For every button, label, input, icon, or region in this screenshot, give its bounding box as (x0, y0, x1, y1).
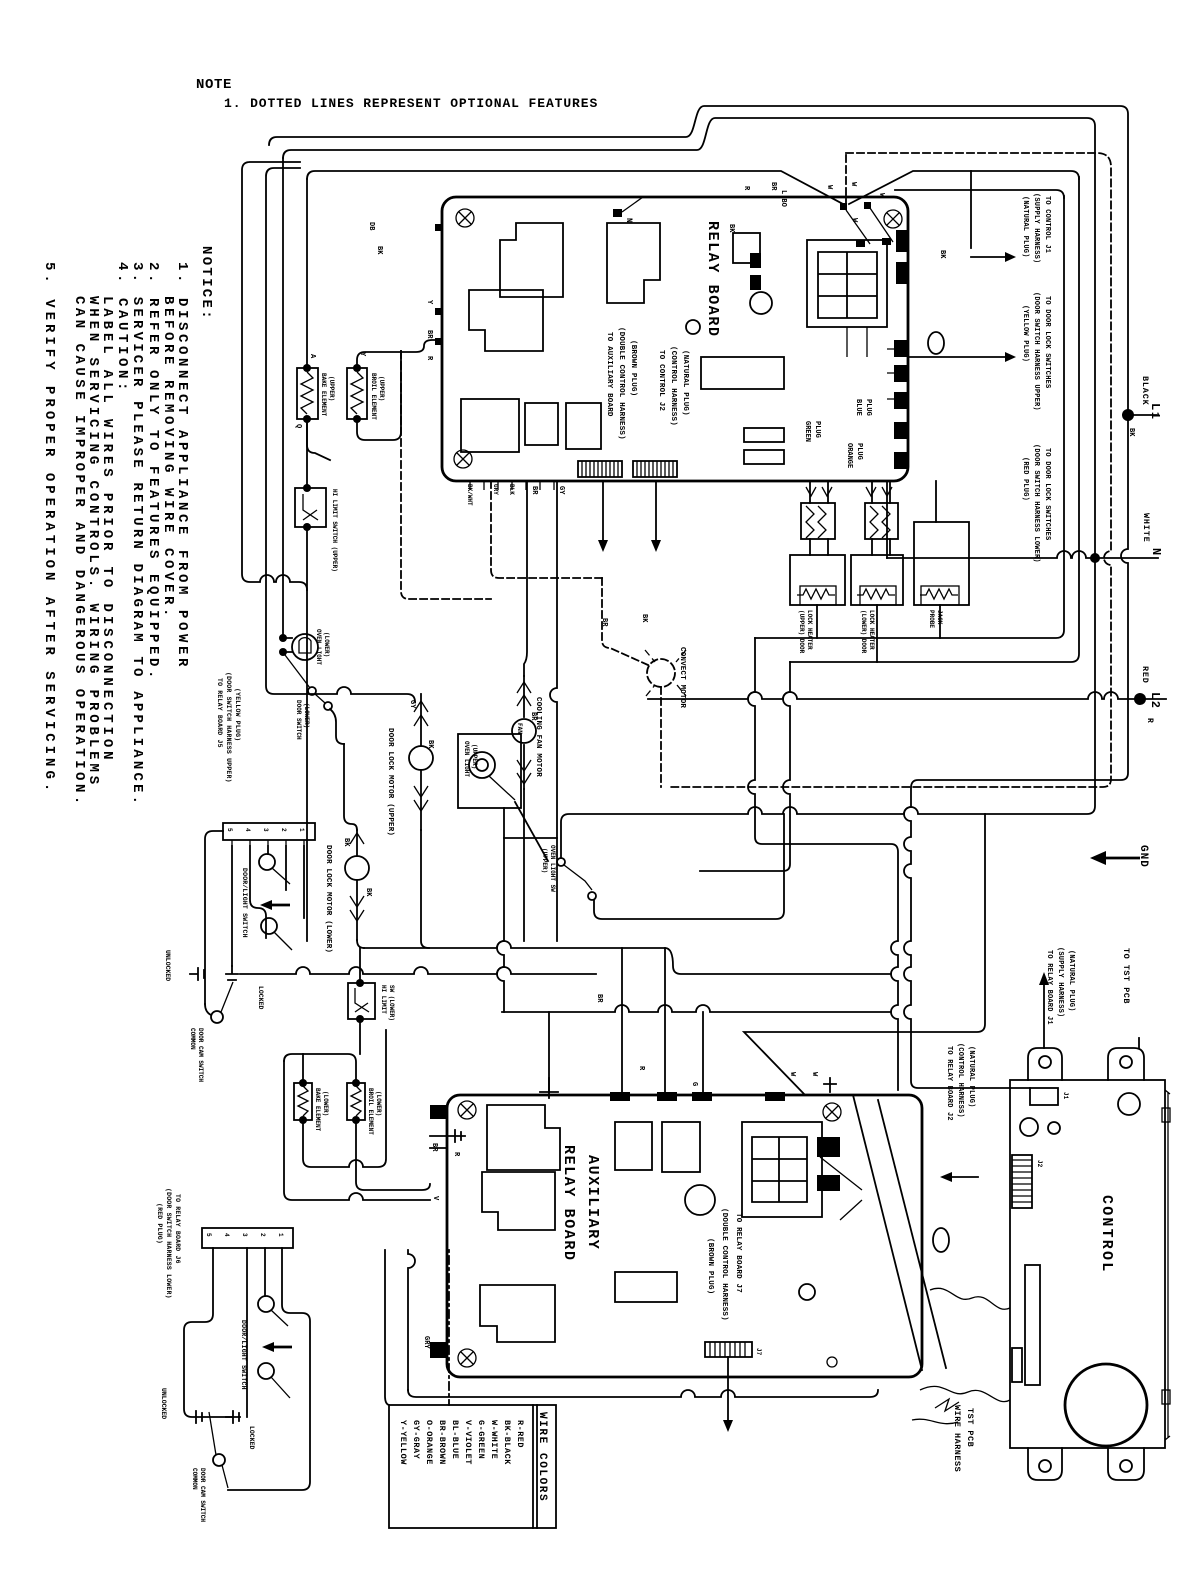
svg-text:UNLOCKED: UNLOCKED (164, 950, 171, 981)
aux relay grid outer (742, 1122, 822, 1217)
aux relay grid cells (752, 1137, 807, 1202)
fan pin blocks (856, 240, 865, 247)
right edge pin block 5 (894, 392, 907, 409)
svg-text:2: 2 (280, 828, 287, 832)
svg-text:R-RED: R-RED (515, 1420, 525, 1448)
dashed wire to convect motor (602, 578, 648, 665)
door/light switch lower circle 1 (258, 1296, 274, 1312)
svg-text:GY-GRAY: GY-GRAY (411, 1420, 421, 1460)
svg-text:(YELLOW PLUG): (YELLOW PLUG) (1021, 305, 1029, 362)
arrow into lower switch (274, 1346, 292, 1349)
svg-text:(LOWER) DOOR: (LOWER) DOOR (860, 610, 867, 654)
wire: feed to aux pins horizontal (744, 814, 985, 1095)
svg-text:3: 3 (241, 1233, 248, 1237)
wire: aux pin risers (549, 948, 703, 1092)
hi limit switch lower box (348, 983, 375, 1019)
control 3d edge (1165, 1090, 1170, 1440)
svg-text:(NATURAL PLUG): (NATURAL PLUG) (1021, 196, 1029, 258)
svg-text:R: R (1145, 718, 1154, 723)
mounting hole bottom-left (454, 450, 472, 468)
svg-text:(RED PLUG): (RED PLUG) (1021, 457, 1029, 501)
svg-text:DOOR/LIGHT SWITCH: DOOR/LIGHT SWITCH (240, 1320, 247, 1390)
svg-text:COOLING FAN MOTOR: COOLING FAN MOTOR (534, 697, 542, 777)
bake element upper terminals (303, 364, 311, 372)
control mounting ear bottom-left (1028, 1448, 1062, 1480)
wire fan feed from board (524, 481, 527, 676)
small arrows above heaters (806, 487, 892, 496)
svg-text:PLUG: PLUG (855, 443, 863, 460)
harness squiggle 3 (912, 1399, 959, 1424)
svg-text:(RED PLUG): (RED PLUG) (156, 1203, 163, 1244)
svg-text:TO RELAY BOARD J5: TO RELAY BOARD J5 (216, 678, 223, 748)
harness squiggle 1 (930, 1288, 1010, 1309)
wire: down arrow from board J3 (655, 481, 657, 540)
svg-text:3: 3 (262, 828, 269, 832)
control big circle (1065, 1364, 1147, 1446)
wire motor upper bottom (421, 830, 429, 948)
right edge pin block 4 (894, 365, 907, 382)
aux top pin blocks (610, 1092, 630, 1101)
svg-text:ORANGE: ORANGE (845, 443, 853, 468)
svg-text:BEFORE REMOVING WIRE COVER.: BEFORE REMOVING WIRE COVER. (160, 296, 176, 620)
svg-text:JACK: JACK (936, 610, 943, 625)
switch blade (564, 865, 592, 890)
hi limit switch blade (303, 494, 318, 520)
svg-text:TO RELAY BOARD J1: TO RELAY BOARD J1 (1045, 950, 1053, 1025)
svg-text:(NATURAL PLUG): (NATURAL PLUG) (681, 350, 689, 416)
right edge pin block 7 (894, 452, 907, 469)
wire: strip J6 pin 1 path (228, 1248, 310, 1490)
relay K2 polygon (469, 290, 543, 351)
strip J5 pin ticks (232, 840, 304, 846)
svg-text:COMMON: COMMON (191, 1468, 198, 1490)
svg-text:COMMON: COMMON (189, 1028, 196, 1050)
svg-text:CAN CAUSE IMPROPER AND DANGERO: CAN CAUSE IMPROPER AND DANGEROUS OPERATI… (71, 296, 87, 808)
wire: left rail 2 (266, 168, 415, 702)
aux right edge pin blocks (817, 1137, 840, 1157)
t-bar terminal lower 2 (226, 1411, 239, 1423)
arrow into switch 2 (272, 904, 290, 907)
svg-text:(BROWN PLUG): (BROWN PLUG) (706, 1238, 714, 1294)
wire: long horizontal 974 (240, 967, 596, 974)
wire: dashed stub to junction (845, 155, 847, 204)
svg-text:4. CAUTION:: 4. CAUTION: (114, 262, 130, 394)
control mounting ear top-right (1108, 1048, 1144, 1080)
wire: frame line into board top junction (307, 171, 843, 204)
svg-text:(SUPPLY HARNESS): (SUPPLY HARNESS) (1056, 947, 1064, 1017)
control circle small (1048, 1122, 1060, 1134)
svg-text:LOCK HEATER: LOCK HEATER (868, 610, 875, 650)
svg-text:DOOR SWITCH: DOOR SWITCH (295, 700, 302, 740)
svg-text:GRY: GRY (422, 1336, 430, 1349)
svg-text:BK: BK (727, 224, 735, 233)
aux small circle (799, 1284, 815, 1300)
convect motor dashed circle (647, 659, 675, 687)
right edge pin block 6 (894, 422, 907, 439)
connector J3 strip hatched (633, 461, 677, 477)
mounting hole top-left (456, 209, 474, 227)
small circle component (686, 320, 700, 334)
svg-text:1. DOTTED LINES REPRESENT OPTI: 1. DOTTED LINES REPRESENT OPTIONAL FEATU… (224, 96, 598, 111)
oven light upper lamp (469, 752, 495, 778)
dash-dot riser to legend (448, 1250, 450, 1405)
svg-text:TO CONTROL J1: TO CONTROL J1 (1043, 196, 1051, 253)
wire: left rail 1 (242, 162, 307, 590)
broil element upper box (347, 368, 367, 419)
left edge stub 1 (435, 224, 443, 231)
control tall connector (1025, 1265, 1040, 1385)
aux top t-bar pin (540, 1078, 558, 1098)
relay board outline (442, 197, 908, 481)
svg-text:3. SERVICER PLEASE RETURN DIAG: 3. SERVICER PLEASE RETURN DIAGRAM TO APP… (129, 262, 145, 807)
aux small hole bottom-right (827, 1357, 837, 1367)
svg-text:HI LIMIT SWITCH (UPPER): HI LIMIT SWITCH (UPPER) (331, 489, 338, 572)
svg-text:DOOR LOCK MOTOR (UPPER): DOOR LOCK MOTOR (UPPER) (386, 728, 394, 836)
svg-text:N: N (1149, 548, 1163, 557)
svg-text:J2: J2 (1036, 1160, 1043, 1168)
cam switch lower circle (213, 1454, 225, 1466)
svg-text:O-ORANGE: O-ORANGE (424, 1420, 434, 1465)
svg-text:1: 1 (277, 1233, 284, 1237)
svg-text:4: 4 (223, 1233, 230, 1237)
svg-text:CONTROL: CONTROL (1098, 1195, 1115, 1273)
svg-text:BROIL ELEMENT: BROIL ELEMENT (370, 373, 377, 420)
svg-text:BK/WHT: BK/WHT (466, 484, 473, 506)
aux relay polygon 2 (482, 1172, 555, 1230)
door lock motor upper arrows (420, 694, 422, 746)
svg-text:BAKE ELEMENT: BAKE ELEMENT (320, 373, 327, 417)
wire: rail to door-lock heater row (755, 196, 1064, 638)
arrowhead (1005, 352, 1016, 362)
t-bar terminal 2 (190, 968, 204, 980)
svg-text:OVEN LIGHT SW: OVEN LIGHT SW (549, 845, 556, 892)
t-bar terminal 1 (226, 966, 238, 980)
svg-text:TO TST PCB: TO TST PCB (1121, 948, 1131, 1004)
convect motor dashed arrows (645, 650, 686, 696)
cooling fan motor (512, 719, 536, 743)
svg-text:V-VIOLET: V-VIOLET (463, 1420, 473, 1465)
wire: dashed optional line top (668, 153, 1111, 787)
svg-text:5. VERIFY PROPER OPERATION AFT: 5. VERIFY PROPER OPERATION AFTER SERVICI… (41, 262, 57, 795)
wire: door switch to motor feed (330, 709, 344, 744)
oven light upper box (458, 734, 521, 808)
tilted side panel line 1 (853, 1095, 922, 1370)
svg-text:BK: BK (342, 838, 350, 847)
aux relay polygon 1 (487, 1105, 560, 1170)
wires from strip J5 down (232, 846, 304, 966)
grid to pin wires (847, 327, 894, 399)
door lock motor lower arrows (356, 830, 358, 856)
cam switch terminals (205, 1004, 211, 1015)
wire into switch from left rail (504, 837, 557, 839)
svg-text:TO DOOR LOCK SWITCHES: TO DOOR LOCK SWITCHES (1043, 296, 1051, 388)
bake element lower box (294, 1083, 312, 1120)
svg-text:GY: GY (408, 700, 416, 709)
probe jack box (914, 522, 969, 605)
svg-text:2: 2 (259, 1233, 266, 1237)
ic rect (701, 357, 784, 389)
wire: oven light switch riser (594, 814, 784, 919)
oven light lower lamp (292, 634, 318, 660)
wire: vertical rail mid 2 (700, 662, 790, 871)
tilted side panel line 2 (878, 1100, 946, 1368)
svg-text:BL-BLUE: BL-BLUE (450, 1420, 460, 1459)
t-bone terminals into aux left (430, 1130, 465, 1142)
svg-text:NOTICE:: NOTICE: (198, 246, 214, 321)
wire: junction to right continuing frame (849, 171, 1079, 204)
cam switch lower tail (222, 1465, 228, 1488)
svg-text:DOOR CAM SWITCH: DOOR CAM SWITCH (199, 1468, 206, 1522)
aux circle (685, 1185, 715, 1215)
svg-text:(UPPER) DOOR: (UPPER) DOOR (798, 610, 805, 654)
aux rect 2 (662, 1122, 700, 1172)
svg-text:(CONTROL HARNESS): (CONTROL HARNESS) (669, 346, 677, 426)
svg-text:L1: L1 (1148, 403, 1162, 420)
door lock motor lower (345, 856, 369, 880)
aux ic rect (615, 1272, 677, 1302)
wire: relay j1 arrow up (1043, 985, 1045, 1048)
aux relay polygon 3 (480, 1285, 555, 1342)
left edge stub 2 (435, 308, 443, 315)
right edge pin block 1 (896, 230, 907, 252)
aux mounting hole top-right (823, 1103, 841, 1121)
svg-text:DB: DB (367, 222, 375, 231)
relay contact grid cells (818, 252, 877, 318)
svg-text:UNLOCKED: UNLOCKED (160, 1388, 167, 1419)
svg-text:BK: BK (364, 888, 372, 897)
oven light switch upper: terminals (557, 858, 565, 866)
svg-text:BR: BR (425, 330, 433, 339)
cooling fan arrows up (523, 676, 525, 717)
wire: to tst pcb riser (1138, 1038, 1140, 1048)
harness squiggle 2 (920, 1386, 1010, 1401)
wire: down arrow from board J2 (602, 481, 604, 540)
wire: rail to second heater row (790, 177, 1079, 662)
wire: arrow to door lock switches lower (910, 356, 1005, 358)
wire: strip J6 pin 3 down (246, 1248, 248, 1417)
wire: bake bottom to switch (307, 419, 330, 460)
svg-text:PLUG: PLUG (864, 399, 872, 416)
aux diagonal wire to pin (820, 1157, 862, 1220)
relay K1 polygon (500, 223, 563, 297)
label N terminal on board edge (613, 209, 622, 217)
svg-text:TO CONTROL J2: TO CONTROL J2 (657, 350, 665, 411)
svg-text:J1: J1 (1062, 1092, 1069, 1100)
oven light lower terminals (279, 634, 287, 642)
control top-left connector (1030, 1088, 1058, 1105)
svg-text:2. REFER ONLY TO FEATURES EQUI: 2. REFER ONLY TO FEATURES EQUIPPED. (145, 262, 161, 682)
mid pin block 1 (750, 253, 761, 268)
heater inner resistor rects (800, 586, 836, 605)
right edge pin block 2 (896, 262, 907, 284)
svg-text:(DOOR SWITCH HARNESS UPPER): (DOOR SWITCH HARNESS UPPER) (1032, 292, 1040, 411)
aux connector J7 strip (705, 1342, 752, 1357)
outer loop to cam switch (205, 831, 223, 1004)
svg-text:OVEN LIGHT: OVEN LIGHT (463, 741, 470, 777)
svg-text:(NATURAL PLUG): (NATURAL PLUG) (967, 1046, 975, 1108)
svg-text:(LOWER): (LOWER) (322, 1091, 329, 1116)
svg-text:5: 5 (226, 828, 233, 832)
aux mounting hole top-left (458, 1101, 476, 1119)
control board outline thick (1010, 1080, 1165, 1448)
svg-text:BR: BR (600, 618, 608, 627)
heater element lower (zigzag box) (865, 503, 898, 539)
oven light switch blade (489, 776, 515, 800)
door lock heater box lower (851, 555, 903, 605)
aux mounting hole bottom-left (458, 1349, 476, 1367)
svg-text:(DOOR SWITCH HARNESS LOWER): (DOOR SWITCH HARNESS LOWER) (165, 1188, 172, 1299)
wire GY from board down (550, 481, 557, 941)
cooling fan arrows down (523, 745, 525, 789)
rect cluster bottom-left 2 (525, 403, 558, 445)
hi limit switch upper box (295, 488, 326, 527)
rect cluster bottom-left 1 (461, 399, 519, 452)
svg-text:(DOUBLE CONTROL HARNESS): (DOUBLE CONTROL HARNESS) (720, 1208, 728, 1321)
svg-text:BLK: BLK (508, 484, 515, 495)
wire: below aux horizontal (408, 1390, 878, 1397)
svg-text:BK-BLACK: BK-BLACK (502, 1420, 512, 1465)
svg-text:RED: RED (1140, 666, 1150, 684)
svg-text:4: 4 (244, 828, 251, 832)
svg-text:DOOR/LIGHT SWITCH: DOOR/LIGHT SWITCH (241, 868, 248, 938)
wire: second top frame line to right rail (283, 118, 1095, 858)
wire: broil element to board (357, 340, 442, 368)
board right connector strips (744, 428, 784, 442)
wire: rail x=504 (497, 808, 504, 1012)
wires boxes down (817, 605, 940, 662)
door switch lower: blade (285, 655, 310, 688)
node N junction dot (1090, 553, 1100, 563)
auxiliary relay board outline (447, 1095, 922, 1377)
svg-text:L BO: L BO (779, 190, 787, 207)
component rect small (733, 233, 760, 263)
door/light switch lower circle 2 (258, 1363, 274, 1379)
junction blob W (840, 203, 847, 210)
svg-text:(LOWER): (LOWER) (303, 703, 310, 728)
svg-text:BAKE ELEMENT: BAKE ELEMENT (314, 1088, 321, 1132)
wire: left rail 3 (to oven light lower) (282, 158, 284, 634)
wire: strip J6 pin 2 to switch (264, 1248, 266, 1296)
svg-text:1: 1 (298, 828, 305, 832)
control circle top right (1118, 1093, 1140, 1115)
svg-text:BR: BR (595, 994, 603, 1003)
control right edge tabs (1162, 1108, 1170, 1122)
svg-text:GRY: GRY (492, 484, 499, 495)
svg-text:TO RELAY BOARD J7: TO RELAY BOARD J7 (734, 1213, 742, 1293)
relay contact grid outer (807, 240, 887, 327)
wire: left risers to below-aux line (408, 1250, 415, 1390)
svg-text:BR: BR (530, 486, 538, 495)
wire colors legend box (389, 1405, 556, 1528)
hi limit terminals (303, 484, 311, 492)
svg-text:5: 5 (205, 1233, 212, 1237)
svg-text:LOCKED: LOCKED (257, 986, 264, 1010)
svg-text:L2: L2 (1148, 692, 1162, 709)
node L2 junction dot (1134, 693, 1146, 705)
control mounting ear bottom-right (1108, 1448, 1144, 1480)
cam switch circle (211, 1011, 223, 1023)
left edge stub 3 (435, 338, 443, 345)
svg-text:(BROWN PLUG): (BROWN PLUG) (629, 340, 637, 396)
connector J2 strip hatched (578, 461, 622, 477)
svg-text:TO RELAY BOARD J6: TO RELAY BOARD J6 (174, 1194, 181, 1264)
broil element lower box (347, 1083, 365, 1120)
connector strip J6 (202, 1228, 293, 1248)
svg-text:CONVECT MOTOR: CONVECT MOTOR (678, 647, 686, 708)
svg-text:(LOWER): (LOWER) (375, 1091, 382, 1116)
wire: outer top frame line to L1 rail (269, 106, 1128, 1088)
wire: rail 4 lower (306, 419, 308, 941)
svg-text:(NATURAL PLUG): (NATURAL PLUG) (1067, 950, 1075, 1012)
svg-text:DOOR CAM SWITCH: DOOR CAM SWITCH (197, 1028, 204, 1082)
rect cluster bottom-left 3 (566, 403, 601, 449)
svg-text:BLACK: BLACK (1140, 376, 1150, 406)
svg-text:LOCKED: LOCKED (248, 1426, 255, 1450)
aux rect 1 (615, 1122, 652, 1170)
wire motor lower bottom to loop (357, 940, 364, 948)
svg-text:(UPPER): (UPPER) (471, 744, 478, 769)
wire: element lower bottoms (303, 1030, 386, 1167)
dashed wire from board bottom (491, 481, 602, 578)
svg-text:(DOOR SWITCH HARNESS LOWER): (DOOR SWITCH HARNESS LOWER) (1032, 444, 1040, 563)
wire: left vertical down (284, 1061, 430, 1200)
wire: board bottom to N line (886, 481, 888, 558)
cam switch lower blade (209, 1412, 216, 1455)
svg-text:(LOWER): (LOWER) (323, 632, 330, 657)
door/light switch upper circle 2 (261, 918, 277, 934)
door lock heater box upper (790, 555, 845, 605)
svg-text:(UPPER): (UPPER) (328, 376, 335, 401)
door/light switch upper circle 1 (259, 854, 275, 870)
svg-text:G-GREEN: G-GREEN (476, 1420, 486, 1459)
control small rect (1012, 1348, 1022, 1382)
svg-text:(DOUBLE CONTROL HARNESS): (DOUBLE CONTROL HARNESS) (617, 327, 625, 440)
wire: fan diagonal into board pins (846, 210, 870, 244)
svg-text:(DOOR SWITCH HARNESS UPPER): (DOOR SWITCH HARNESS UPPER) (225, 672, 232, 783)
svg-text:TO RELAY BOARD J2: TO RELAY BOARD J2 (945, 1046, 953, 1121)
svg-text:BLUE: BLUE (854, 399, 862, 416)
wire: broil element bottom jog (357, 351, 401, 440)
wire: aux J7 arrow down (727, 1357, 729, 1420)
svg-text:BROIL ELEMENT: BROIL ELEMENT (367, 1088, 374, 1135)
svg-text:BR: BR (769, 182, 777, 191)
svg-text:(CONTROL HARNESS): (CONTROL HARNESS) (956, 1043, 964, 1118)
wire: second line to rail 1064 (895, 190, 1064, 198)
right edge pin block 3 (894, 340, 907, 357)
svg-text:PLUG: PLUG (813, 421, 821, 438)
svg-text:W-WHITE: W-WHITE (489, 1420, 499, 1459)
wire: long horizontal 1012 (502, 1005, 891, 1012)
svg-text:DOOR LOCK MOTOR (LOWER): DOOR LOCK MOTOR (LOWER) (324, 845, 332, 953)
svg-text:(UPPER): (UPPER) (378, 376, 385, 401)
wires heater to boxes (810, 539, 890, 555)
oval hole right of board (928, 332, 944, 354)
wire: strip J6 pin 5 loop (184, 1248, 240, 1417)
circle component (750, 292, 772, 314)
cam switch blade (221, 982, 233, 1012)
svg-text:SW (LOWER): SW (LOWER) (388, 985, 395, 1021)
svg-text:BK: BK (938, 250, 946, 259)
svg-text:J7: J7 (755, 1348, 762, 1356)
svg-text:G: G (690, 1082, 698, 1086)
wire hi limit lower feeds (359, 948, 361, 1054)
control connector J2 hatched (1012, 1155, 1032, 1208)
wire: left elements bundle top (284, 1054, 356, 1083)
door lock motor upper (409, 746, 433, 770)
svg-text:HI LIMIT: HI LIMIT (380, 985, 387, 1014)
svg-text:WHITE: WHITE (1141, 513, 1151, 543)
svg-text:GY: GY (557, 486, 565, 495)
